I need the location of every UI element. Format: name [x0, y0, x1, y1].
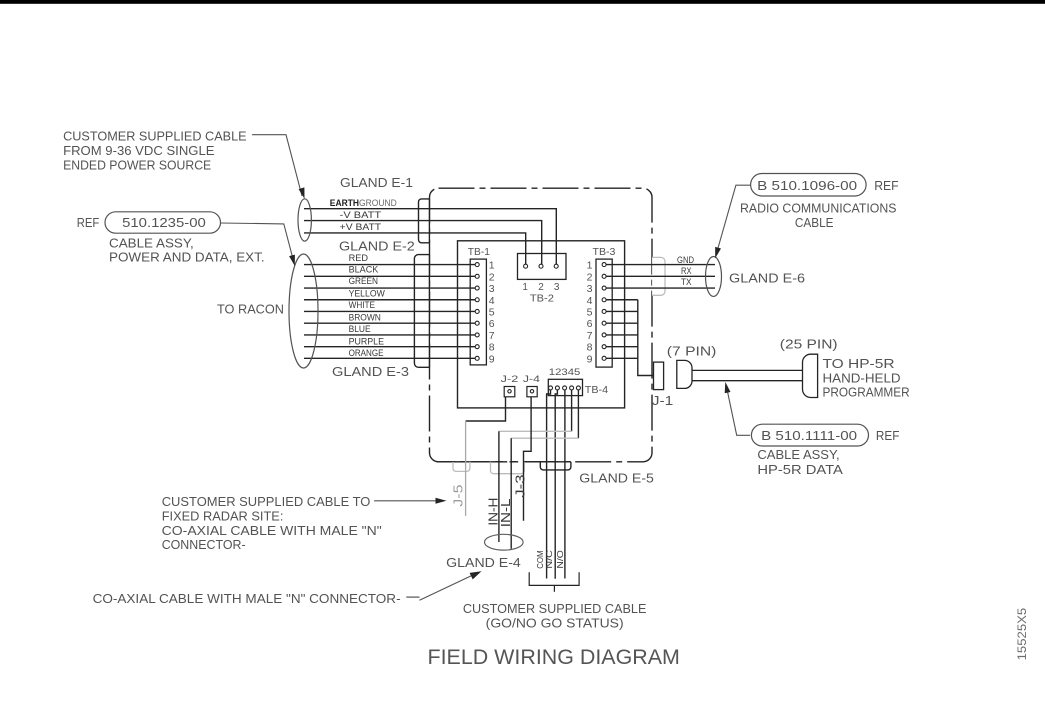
svg-text:REF: REF — [876, 428, 900, 443]
svg-text:J-4: J-4 — [523, 374, 540, 384]
svg-text:CO-AXIAL CABLE WITH MALE "N": CO-AXIAL CABLE WITH MALE "N" — [162, 523, 382, 538]
svg-text:TB-3: TB-3 — [593, 247, 616, 258]
svg-text:RADIO COMMUNICATIONS: RADIO COMMUNICATIONS — [740, 201, 897, 216]
svg-text:TB-2: TB-2 — [530, 294, 554, 305]
svg-text:TX: TX — [681, 277, 692, 288]
svg-text:CUSTOMER SUPPLIED CABLE TO: CUSTOMER SUPPLIED CABLE TO — [162, 494, 371, 509]
svg-text:GLAND E-1: GLAND E-1 — [340, 176, 413, 190]
svg-text:6: 6 — [587, 318, 593, 330]
svg-text:3: 3 — [587, 283, 593, 295]
svg-text:5: 5 — [489, 306, 495, 318]
svg-text:B 510.1096-00: B 510.1096-00 — [757, 178, 857, 193]
svg-text:FIXED RADAR SITE:: FIXED RADAR SITE: — [162, 509, 284, 524]
svg-text:12345: 12345 — [549, 367, 581, 378]
svg-text:(7 PIN): (7 PIN) — [667, 343, 717, 358]
svg-text:GREEN: GREEN — [349, 276, 378, 286]
svg-text:POWER AND DATA, EXT.: POWER AND DATA, EXT. — [109, 250, 265, 265]
svg-text:YELLOW: YELLOW — [349, 289, 386, 299]
svg-text:4: 4 — [587, 295, 593, 307]
svg-text:15525X5: 15525X5 — [1015, 607, 1029, 660]
svg-text:REF: REF — [77, 215, 100, 230]
svg-text:7: 7 — [587, 330, 593, 342]
svg-text:CO-AXIAL CABLE WITH MALE "N" C: CO-AXIAL CABLE WITH MALE "N" CONNECTOR- — [93, 591, 401, 606]
svg-text:RED: RED — [349, 253, 369, 263]
svg-text:8: 8 — [489, 342, 495, 354]
svg-text:HAND-HELD: HAND-HELD — [823, 370, 901, 385]
svg-text:J-5: J-5 — [450, 485, 465, 507]
svg-text:(GO/NO GO STATUS): (GO/NO GO STATUS) — [486, 616, 624, 631]
svg-text:REF: REF — [874, 178, 898, 193]
svg-text:N/O: N/O — [555, 550, 565, 569]
svg-text:EARTHGROUND: EARTHGROUND — [330, 198, 397, 209]
svg-text:6: 6 — [489, 318, 495, 330]
svg-text:J-3: J-3 — [512, 475, 527, 498]
svg-text:GND: GND — [677, 255, 694, 266]
svg-text:BLUE: BLUE — [349, 324, 371, 334]
svg-text:GLAND E-5: GLAND E-5 — [579, 472, 654, 486]
svg-text:GLAND E-2: GLAND E-2 — [339, 239, 415, 253]
svg-text:7: 7 — [489, 330, 495, 342]
svg-text:J-1: J-1 — [652, 393, 674, 408]
svg-text:CONNECTOR-: CONNECTOR- — [162, 537, 246, 552]
svg-text:(25 PIN): (25 PIN) — [780, 336, 838, 351]
svg-text:TB-1: TB-1 — [468, 247, 491, 258]
svg-text:CUSTOMER SUPPLIED CABLE: CUSTOMER SUPPLIED CABLE — [63, 129, 247, 144]
svg-text:CABLE: CABLE — [795, 215, 834, 230]
svg-text:5: 5 — [587, 306, 593, 318]
svg-text:510.1235-00: 510.1235-00 — [122, 215, 206, 230]
svg-text:2: 2 — [489, 271, 495, 283]
svg-text:BLACK: BLACK — [349, 265, 379, 275]
svg-text:GLAND E-4: GLAND E-4 — [446, 556, 521, 570]
svg-text:HP-5R DATA: HP-5R DATA — [757, 462, 843, 477]
svg-text:CABLE ASSY,: CABLE ASSY, — [109, 236, 194, 251]
svg-text:1: 1 — [489, 260, 495, 272]
svg-text:1: 1 — [522, 282, 528, 293]
svg-text:3: 3 — [554, 282, 560, 293]
svg-text:PROGRAMMER: PROGRAMMER — [823, 385, 910, 400]
svg-text:B 510.1111-00: B 510.1111-00 — [761, 428, 857, 443]
svg-text:GLAND E-6: GLAND E-6 — [729, 271, 805, 285]
svg-text:2: 2 — [587, 271, 593, 283]
svg-text:2: 2 — [538, 282, 544, 293]
svg-text:1: 1 — [587, 260, 593, 272]
svg-text:TB-4: TB-4 — [585, 385, 609, 396]
svg-text:BROWN: BROWN — [349, 312, 381, 322]
svg-text:TO RACON: TO RACON — [217, 302, 284, 317]
svg-text:WHITE: WHITE — [349, 300, 375, 310]
svg-text:CABLE ASSY,: CABLE ASSY, — [757, 447, 839, 462]
svg-text:CUSTOMER SUPPLIED CABLE: CUSTOMER SUPPLIED CABLE — [463, 601, 647, 616]
svg-text:4: 4 — [489, 295, 495, 307]
svg-text:+V BATT: +V BATT — [340, 222, 382, 233]
svg-text:N/C: N/C — [544, 550, 554, 568]
svg-text:ENDED POWER SOURCE: ENDED POWER SOURCE — [63, 157, 211, 172]
svg-text:PURPLE: PURPLE — [349, 336, 384, 346]
svg-text:9: 9 — [587, 353, 593, 365]
svg-text:IN-L: IN-L — [498, 499, 513, 528]
svg-text:GLAND E-3: GLAND E-3 — [332, 365, 409, 379]
svg-text:3: 3 — [489, 283, 495, 295]
svg-text:8: 8 — [587, 342, 593, 354]
svg-text:FROM 9-36 VDC SINGLE: FROM 9-36 VDC SINGLE — [63, 143, 215, 158]
svg-text:-V BATT: -V BATT — [340, 210, 382, 221]
svg-text:TO HP-5R: TO HP-5R — [823, 356, 895, 371]
svg-text:J-2: J-2 — [501, 374, 519, 384]
svg-text:RX: RX — [681, 266, 692, 277]
svg-text:ORANGE: ORANGE — [349, 348, 384, 358]
svg-text:FIELD WIRING DIAGRAM: FIELD WIRING DIAGRAM — [428, 646, 680, 669]
svg-text:9: 9 — [489, 353, 495, 365]
